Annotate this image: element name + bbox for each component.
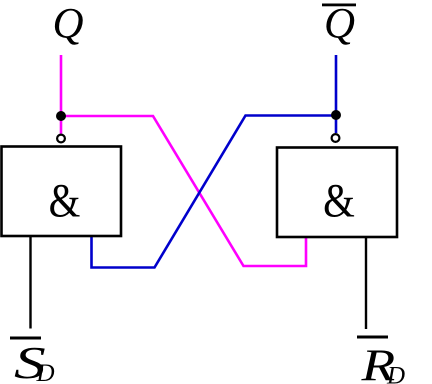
wire Qbar output (blue) vertical from Qbar label to bubble [335, 55, 338, 133]
node label Qbar overline [322, 4, 356, 7]
wire blue feedback: Qbar to left gate lower input [92, 116, 337, 268]
NAND gate U2 output bubble [332, 134, 340, 142]
node junction dot on Qbar [331, 110, 341, 120]
wire RD input (black) [365, 238, 367, 329]
node junction dot on Q [56, 111, 66, 121]
svg-text:D: D [386, 363, 405, 384]
svg-text:&: & [49, 173, 81, 227]
node label RD overline [357, 336, 388, 339]
svg-text:D: D [36, 360, 55, 384]
NAND gate U1 (left) body [2, 147, 122, 237]
svg-text:&: & [323, 173, 355, 227]
wire SD input (black) [29, 237, 31, 329]
svg-text:Q: Q [52, 1, 83, 48]
svg-text:Q: Q [324, 1, 355, 48]
NAND gate U1 output bubble [57, 135, 65, 143]
node label SD overline [10, 337, 41, 340]
wire magenta feedback: Q to right gate lower input [61, 116, 306, 266]
wire Q output (magenta) vertical from Q label to bubble [60, 55, 63, 134]
NAND gate U2 (right) body [277, 148, 397, 238]
